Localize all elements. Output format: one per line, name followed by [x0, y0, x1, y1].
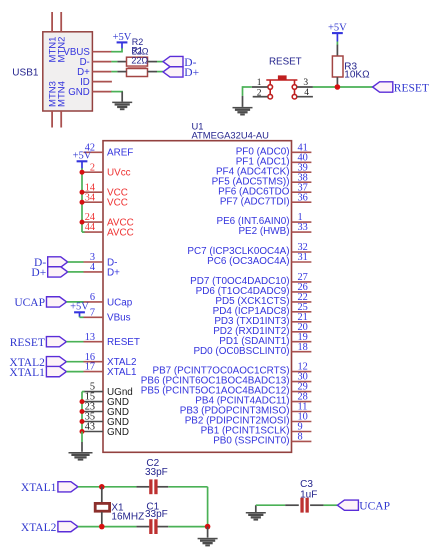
wire +5V rail vertical — [81, 168, 83, 232]
ground symbol at C3 — [246, 512, 266, 521]
USB1 pin MTN4 stub (bottom) — [60, 111, 62, 128]
svg-text:3: 3 — [303, 78, 308, 88]
wire GND rail to ground — [81, 432, 83, 443]
wire XTAL2 net — [78, 526, 136, 528]
U1 pin 4 D+ — [84, 271, 104, 273]
capacitor C2 — [149, 479, 157, 494]
U1 pin 9 PB1 — [292, 431, 312, 433]
ground symbol below USB — [112, 102, 132, 111]
wire to VBus — [79, 316, 81, 319]
U1 pin 44 AVCC — [84, 231, 104, 233]
junction +5V rail / pin row — [80, 190, 85, 195]
wire RESET to pin 13 — [66, 341, 83, 343]
resistor R1 right pin — [148, 71, 158, 73]
ground lead — [242, 96, 244, 107]
switch pin 1 lead — [252, 86, 268, 88]
junction +5V rail / pin row — [80, 200, 85, 205]
svg-text:D+: D+ — [184, 67, 199, 79]
resistor R2 body — [127, 57, 148, 66]
U1 pin 19 PD1 — [292, 341, 312, 343]
switch pin 3 lead — [297, 86, 313, 88]
resistor R1 left pin — [117, 71, 126, 73]
crystal X1 body — [95, 503, 109, 511]
U1 pin 31 PC6 — [292, 261, 312, 263]
U1 pin 41 PF0 — [292, 151, 312, 153]
wire +5V to VBUS (vertical) — [121, 48, 123, 52]
wire D+ to pin 4 — [68, 271, 84, 273]
resistor R3 bottom pin — [336, 77, 338, 87]
wire USB D- to R2 — [111, 61, 117, 63]
wire +5V drop (blue) — [121, 42, 123, 48]
svg-text:4: 4 — [90, 262, 95, 273]
junction GND rail / pin row — [80, 429, 85, 434]
junction GND rail / pin row — [80, 419, 85, 424]
ground symbol below switch — [233, 107, 253, 116]
U1 pin 20 PD2 — [292, 331, 312, 333]
wire switch pin1 to ground (vert) — [242, 86, 244, 96]
svg-text:UCAP: UCAP — [14, 297, 45, 309]
svg-text:RESET: RESET — [269, 56, 302, 67]
svg-text:VCC: VCC — [107, 198, 128, 209]
svg-text:31: 31 — [298, 252, 308, 263]
U1 pin 2 UVcc — [84, 171, 104, 173]
wire +5V drop (blue) — [336, 33, 338, 41]
svg-text:2: 2 — [257, 88, 262, 98]
ground lead — [255, 505, 257, 512]
U1 pin 34 VCC — [84, 201, 104, 203]
U1 pin 17 XTAL1 — [84, 371, 104, 373]
U1 pin 36 PF7 — [292, 201, 312, 203]
capacitor C1 right pin — [158, 526, 169, 528]
wire GND rail vertical — [81, 392, 83, 433]
ground lead — [207, 527, 209, 538]
svg-text:PF7 (ADC7TDI): PF7 (ADC7TDI) — [220, 196, 290, 207]
switch actuator bump — [278, 75, 287, 79]
U1 pin 42 AREF — [84, 151, 104, 153]
USB connector USB1 body — [43, 32, 93, 111]
svg-text:13: 13 — [85, 332, 95, 343]
USB1 D- pin stub — [92, 61, 111, 63]
svg-text:VBus: VBus — [107, 313, 131, 324]
wire UCAP to pin 6 — [67, 301, 84, 303]
svg-text:AVCC: AVCC — [107, 228, 134, 239]
U1 pin 33 PE2 — [292, 231, 312, 233]
U1 pin 29 PB5 — [292, 391, 312, 393]
svg-text:2: 2 — [90, 162, 95, 173]
U1 pin 6 UCap — [84, 301, 104, 303]
USB1 pin MTN2 stub (top) — [60, 12, 62, 32]
svg-text:33pF: 33pF — [145, 509, 168, 520]
svg-text:GND: GND — [107, 427, 129, 438]
U1 pin 40 PF1 — [292, 161, 312, 163]
capacitor C2 left pin — [136, 486, 149, 488]
svg-text:RESET: RESET — [107, 337, 140, 348]
svg-text:10KΩ: 10KΩ — [344, 70, 370, 81]
U1 pin 8 PB0 — [292, 440, 312, 442]
svg-text:4: 4 — [304, 88, 309, 98]
wire reset net to flag — [313, 86, 373, 88]
U1 pin 32 PC7 — [292, 251, 312, 253]
svg-text:UCAP: UCAP — [359, 501, 390, 513]
svg-text:RESET: RESET — [394, 82, 429, 94]
USB1 D+ pin stub — [92, 71, 111, 73]
U1 pin 26 PD6 — [292, 291, 312, 293]
U1 pin 3 D- — [84, 261, 104, 263]
wire D- to pin 3 — [68, 261, 84, 263]
capacitor C3 left pin — [285, 504, 299, 506]
svg-text:8: 8 — [298, 432, 303, 443]
svg-text:XTAL1: XTAL1 — [107, 367, 137, 378]
USB1 ID pin stub (open) — [92, 81, 112, 83]
junction +5V rail / pin row — [80, 170, 85, 175]
capacitor C1 — [149, 519, 157, 534]
wire switch pin1 to ground (horiz) — [243, 86, 252, 88]
wire +5V to R3 — [336, 42, 338, 46]
svg-text:XTAL1: XTAL1 — [9, 367, 45, 379]
net flag D- (to U1) — [48, 257, 68, 267]
wire +5V rail to pin 44 — [82, 231, 85, 233]
capacitor C1 left pin — [136, 526, 149, 528]
USB1 VBUS pin stub — [92, 51, 112, 53]
svg-text:XTAL2: XTAL2 — [21, 522, 57, 534]
wire R2 to D- flag — [157, 61, 163, 63]
svg-text:PD0 (OC0BSCLINT0): PD0 (OC0BSCLINT0) — [193, 346, 289, 357]
svg-text:RESET: RESET — [10, 337, 45, 349]
U1 pin 39 PF4 — [292, 171, 312, 173]
U1 pin 10 PB2 — [292, 421, 312, 423]
svg-text:MTN4: MTN4 — [57, 81, 68, 107]
U1 pin 7 VBus — [84, 316, 104, 318]
resistor R2 left pin — [117, 61, 126, 63]
junction GND rail / pin row — [80, 409, 85, 414]
wire R1 to D+ flag — [157, 71, 163, 73]
resistor overlap band — [128, 66, 147, 68]
U1 pin 18 PD0 — [292, 351, 312, 353]
svg-text:33: 33 — [298, 222, 308, 233]
U1 pin 1 PE6 — [292, 221, 312, 223]
wire C3 to UCAP flag — [324, 504, 338, 506]
capacitor C3 — [300, 498, 308, 513]
svg-text:USB1: USB1 — [12, 67, 39, 78]
U1 pin 15 GND — [84, 401, 104, 403]
resistor R2 right pin — [148, 61, 158, 63]
U1 pin 22 PD5 — [292, 301, 312, 303]
net flag XTAL1 (to crystal) — [58, 482, 78, 492]
wire GND net — [111, 91, 123, 93]
wire XTAL2 to pin 16 — [66, 361, 83, 363]
junction GND rail / pin row — [80, 399, 85, 404]
net flag UCAP (at C3) — [337, 500, 358, 510]
wire XTAL1 net — [78, 486, 136, 488]
crystal X1 top pin — [101, 487, 103, 503]
svg-text:ATMEGA32U4-AU: ATMEGA32U4-AU — [192, 129, 270, 140]
switch pin 4 lead — [297, 96, 313, 98]
svg-text:D+: D+ — [31, 267, 46, 279]
+5V supply symbol at U1 power pins — [77, 160, 88, 162]
junction R3 / reset net — [335, 84, 341, 90]
U1 pin 35 GND — [84, 421, 104, 423]
capacitor C2 right pin — [158, 486, 169, 488]
ground lead — [81, 442, 83, 452]
net flag XTAL1 (to U1) — [46, 366, 66, 376]
U1 pin 28 PB4 — [292, 401, 312, 403]
net flag UCAP (to U1) — [47, 297, 67, 307]
svg-text:+5V: +5V — [113, 32, 132, 43]
svg-text:+5V: +5V — [70, 302, 89, 313]
capacitor C3 right pin — [310, 504, 324, 506]
pushbutton switch (reset) — [266, 80, 297, 99]
svg-text:1: 1 — [257, 78, 262, 88]
net flag XTAL2 (to crystal) — [58, 521, 78, 531]
USB1 pin MTN3 stub (bottom) — [51, 111, 53, 128]
resistor R3 top pin — [336, 45, 338, 56]
U1 pin 16 XTAL2 — [84, 361, 104, 363]
net flag RESET (right) — [373, 82, 393, 92]
switch pin 2 lead — [253, 96, 268, 98]
junction XTAL2 / crystal — [99, 524, 105, 530]
svg-text:18: 18 — [298, 342, 308, 353]
svg-text:AREF: AREF — [107, 148, 133, 159]
wire +5V to pin 7 — [80, 316, 84, 318]
svg-text:36: 36 — [298, 192, 308, 203]
svg-text:+5V: +5V — [328, 23, 347, 34]
svg-text:34: 34 — [85, 192, 95, 203]
+5V supply symbol at VBus — [74, 311, 85, 313]
svg-text:22Ω: 22Ω — [131, 55, 148, 65]
wire C2 to gnd rail — [168, 486, 207, 488]
resistor R3 body — [332, 56, 343, 77]
net flag D+ (to U1) — [48, 267, 68, 277]
U1 pin 25 PD4 — [292, 311, 312, 313]
net flag D- (to USB) — [163, 56, 183, 66]
+5V supply symbol at USB VBUS — [117, 41, 128, 43]
resistor R1 body — [127, 69, 148, 77]
wire GND rail to pin 5 — [82, 391, 85, 393]
svg-text:44: 44 — [85, 222, 95, 233]
wire C1 to gnd rail — [168, 526, 207, 528]
U1 pin 24 AVCC — [84, 221, 104, 223]
USB1 pin MTN1 stub (top) — [51, 12, 53, 32]
U1 pin 23 GND — [84, 411, 104, 413]
svg-text:PB0 (SSPCINT0): PB0 (SSPCINT0) — [213, 436, 289, 447]
USB1 GND pin stub — [92, 91, 112, 93]
ground symbol below C1/C2 — [198, 538, 218, 547]
junction XTAL1 / crystal — [99, 484, 105, 490]
wire gnd rail vertical — [207, 487, 209, 527]
U1 pin 12 PB7 — [292, 371, 312, 373]
svg-text:UVcc: UVcc — [107, 168, 131, 179]
svg-text:+5V: +5V — [73, 151, 92, 162]
wire +5V drop (blue) — [79, 312, 81, 316]
svg-text:17: 17 — [85, 362, 95, 373]
svg-text:7: 7 — [90, 307, 95, 318]
IC U1 body — [103, 141, 292, 453]
wire C3 net — [256, 504, 285, 506]
U1 pin 21 PD3 — [292, 321, 312, 323]
svg-text:R1: R1 — [131, 46, 143, 56]
ground symbol below U1 — [69, 452, 93, 461]
svg-text:UCap: UCap — [107, 297, 133, 308]
svg-text:PE2 (HWB): PE2 (HWB) — [238, 226, 289, 237]
U1 pin 11 PB3 — [292, 411, 312, 413]
U1 pin 43 GND — [84, 431, 104, 433]
svg-text:33pF: 33pF — [145, 467, 168, 478]
ground lead — [121, 92, 123, 102]
crystal X1 bottom pin — [101, 512, 103, 527]
svg-text:XTAL1: XTAL1 — [21, 482, 57, 494]
svg-text:GND: GND — [68, 87, 90, 98]
U1 pin 38 PF5 — [292, 181, 312, 183]
wire +5V to VBUS (horizontal) — [111, 51, 123, 53]
junction +5V rail / pin row — [80, 220, 85, 225]
svg-text:PC6 (OC3AOC4A): PC6 (OC3AOC4A) — [207, 256, 289, 267]
wire +5V drop (blue) — [81, 161, 83, 168]
svg-text:43: 43 — [85, 422, 95, 433]
U1 pin 5 UGnd — [84, 391, 104, 393]
wire XTAL1 to pin 17 — [66, 371, 83, 373]
+5V supply symbol at R3 — [332, 32, 343, 34]
U1 pin 37 PF6 — [292, 191, 312, 193]
svg-text:6: 6 — [90, 292, 95, 303]
svg-text:16MHZ: 16MHZ — [111, 511, 144, 522]
junction C1 / gnd rail — [205, 524, 211, 530]
U1 pin 14 VCC — [84, 191, 104, 193]
wire USB D+ to R1 — [111, 71, 117, 73]
svg-text:D+: D+ — [107, 267, 120, 278]
U1 pin 13 RESET — [84, 341, 104, 343]
net flag RESET (to U1) — [46, 337, 66, 347]
net flag XTAL2 (to U1) — [46, 357, 66, 367]
net flag D+ (to USB) — [163, 67, 183, 77]
U1 pin 30 PB6 — [292, 381, 312, 383]
U1 pin 27 PD7 — [292, 281, 312, 283]
